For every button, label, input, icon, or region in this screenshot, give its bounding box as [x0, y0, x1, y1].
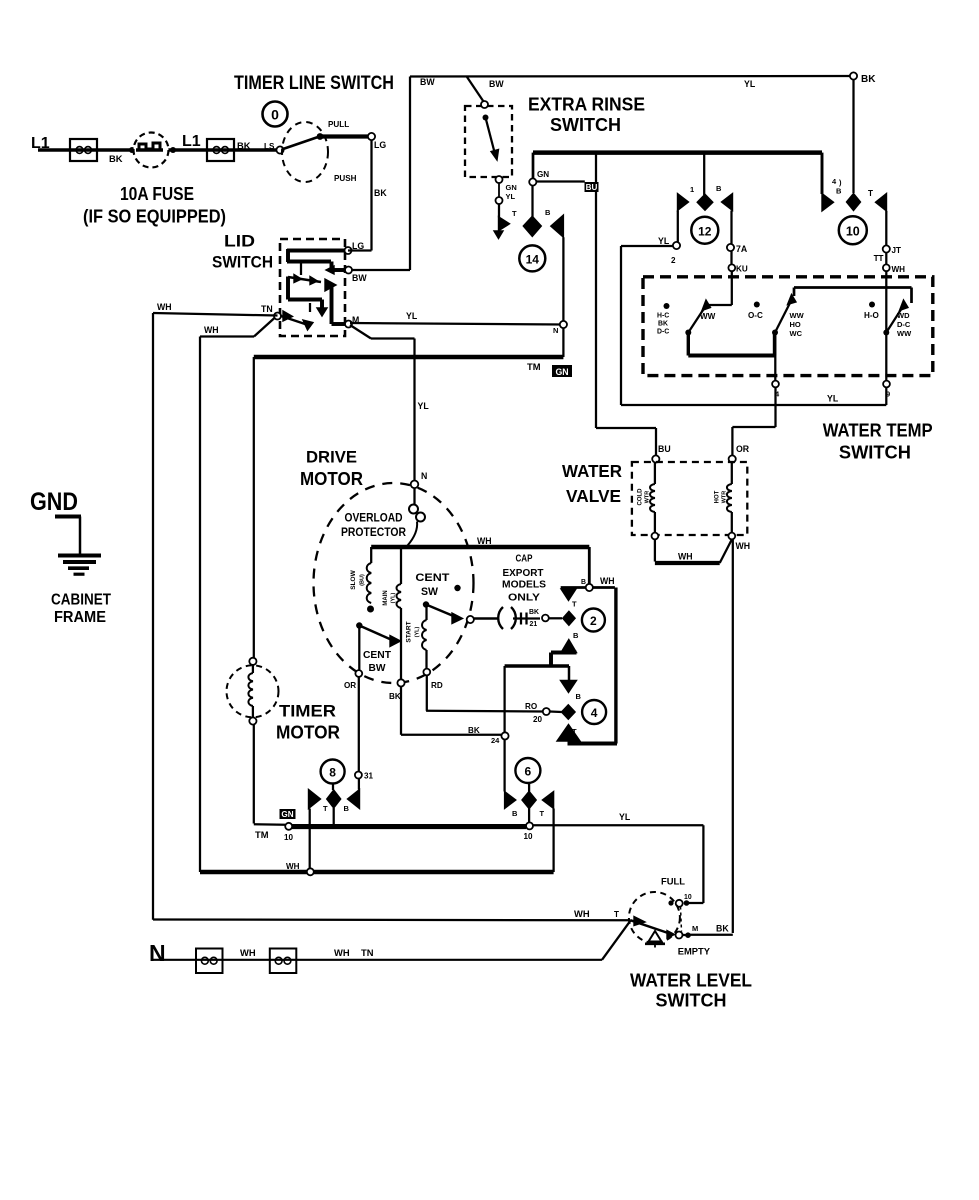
- svg-text:MOTOR: MOTOR: [276, 723, 340, 743]
- svg-text:BK: BK: [716, 924, 729, 934]
- svg-text:BW: BW: [489, 79, 504, 89]
- svg-text:WH: WH: [736, 541, 751, 551]
- svg-text:B: B: [512, 809, 518, 818]
- svg-text:EXTRA RINSE: EXTRA RINSE: [528, 95, 645, 115]
- svg-text:WH: WH: [157, 302, 172, 312]
- svg-text:WTR: WTR: [722, 491, 728, 504]
- svg-text:START: START: [406, 621, 413, 642]
- svg-text:OR: OR: [344, 681, 356, 690]
- svg-text:ONLY: ONLY: [508, 593, 540, 604]
- svg-text:L1: L1: [182, 133, 201, 150]
- svg-text:OR: OR: [736, 444, 750, 454]
- svg-text:10: 10: [523, 832, 533, 841]
- svg-text:WW: WW: [897, 329, 912, 338]
- svg-text:WH: WH: [240, 948, 256, 958]
- svg-text:T: T: [540, 809, 545, 818]
- svg-text:B: B: [344, 804, 350, 813]
- svg-text:TT: TT: [874, 254, 884, 263]
- svg-text:BW: BW: [420, 77, 435, 87]
- svg-text:VALVE: VALVE: [566, 486, 621, 506]
- svg-text:WC: WC: [790, 329, 803, 338]
- svg-text:GND: GND: [30, 488, 78, 516]
- svg-text:HO: HO: [790, 320, 801, 329]
- svg-text:WH: WH: [286, 862, 300, 871]
- svg-text:DRIVE: DRIVE: [306, 448, 357, 467]
- svg-text:YL: YL: [658, 236, 670, 246]
- svg-text:1: 1: [690, 185, 694, 194]
- svg-text:TN: TN: [361, 948, 374, 958]
- svg-text:CENT: CENT: [363, 649, 392, 661]
- svg-text:(YL): (YL): [415, 626, 421, 637]
- svg-text:BK: BK: [109, 154, 123, 164]
- svg-text:WW: WW: [790, 311, 805, 320]
- svg-text:SLOW: SLOW: [350, 569, 357, 589]
- svg-text:24: 24: [491, 736, 500, 745]
- svg-text:WTR: WTR: [645, 491, 651, 504]
- svg-text:WD: WD: [897, 311, 910, 320]
- svg-text:TIMER LINE SWITCH: TIMER LINE SWITCH: [234, 73, 394, 94]
- svg-text:B: B: [545, 208, 551, 217]
- svg-text:T: T: [572, 727, 577, 736]
- svg-text:SWITCH: SWITCH: [656, 991, 727, 1011]
- svg-text:WH: WH: [477, 536, 492, 546]
- svg-text:MAIN: MAIN: [383, 590, 389, 605]
- svg-text:GN: GN: [537, 170, 549, 179]
- svg-text:T: T: [323, 804, 328, 813]
- svg-text:EMPTY: EMPTY: [678, 947, 711, 957]
- svg-text:RO: RO: [525, 702, 537, 711]
- svg-text:YL: YL: [827, 394, 839, 404]
- svg-text:N: N: [149, 940, 166, 966]
- svg-text:31: 31: [364, 772, 374, 781]
- svg-text:GN: GN: [555, 367, 568, 377]
- svg-text:YL: YL: [506, 192, 516, 201]
- svg-text:10A FUSE: 10A FUSE: [120, 184, 194, 204]
- svg-text:KU: KU: [736, 265, 748, 274]
- svg-text:GN: GN: [506, 183, 517, 192]
- svg-text:O-C: O-C: [748, 311, 763, 320]
- svg-text:10: 10: [284, 833, 294, 842]
- svg-text:BK: BK: [237, 141, 251, 151]
- svg-text:YL: YL: [744, 79, 756, 89]
- svg-text:LS: LS: [264, 142, 275, 151]
- svg-text:WATER LEVEL: WATER LEVEL: [630, 971, 752, 991]
- svg-text:21: 21: [530, 621, 538, 628]
- svg-text:TIMER: TIMER: [279, 702, 336, 721]
- svg-text:2: 2: [671, 256, 676, 265]
- svg-text:SWITCH: SWITCH: [212, 253, 273, 272]
- svg-text:B: B: [836, 187, 842, 196]
- svg-text:(IF SO EQUIPPED): (IF SO EQUIPPED): [83, 207, 226, 227]
- svg-text:WH: WH: [892, 265, 906, 274]
- svg-text:WH: WH: [204, 325, 219, 335]
- svg-text:FULL: FULL: [661, 877, 685, 887]
- svg-text:N: N: [421, 471, 427, 481]
- svg-text:B: B: [581, 579, 586, 586]
- svg-text:WH: WH: [600, 576, 615, 586]
- svg-text:T: T: [512, 209, 517, 218]
- svg-text:HOT: HOT: [715, 490, 721, 503]
- svg-text:WATER TEMP: WATER TEMP: [823, 421, 933, 441]
- svg-text:H-O: H-O: [864, 311, 879, 320]
- svg-text:WH: WH: [678, 552, 693, 562]
- svg-text:BW: BW: [369, 662, 386, 674]
- svg-text:7A: 7A: [736, 244, 748, 254]
- svg-text:10: 10: [846, 225, 860, 239]
- svg-text:6: 6: [525, 765, 532, 779]
- svg-text:YL: YL: [406, 311, 418, 321]
- svg-text:WH: WH: [334, 948, 350, 958]
- svg-text:12: 12: [698, 225, 712, 239]
- svg-text:N: N: [553, 326, 558, 335]
- svg-text:B: B: [573, 631, 579, 640]
- svg-text:(YL): (YL): [391, 592, 397, 603]
- svg-text:4: 4: [591, 706, 598, 720]
- svg-text:BK: BK: [389, 692, 401, 701]
- svg-text:BU: BU: [658, 444, 671, 454]
- svg-text:YL: YL: [619, 812, 631, 822]
- svg-text:BK: BK: [861, 74, 876, 85]
- svg-text:JT: JT: [892, 246, 902, 255]
- svg-text:WATER: WATER: [562, 461, 622, 481]
- svg-text:PUSH: PUSH: [334, 174, 357, 183]
- svg-text:MOTOR: MOTOR: [300, 469, 363, 489]
- svg-text:WH: WH: [574, 909, 590, 919]
- svg-text:8: 8: [329, 766, 336, 780]
- svg-text:MODELS: MODELS: [502, 580, 546, 591]
- svg-text:H-C: H-C: [657, 313, 669, 320]
- svg-text:RD: RD: [431, 681, 443, 690]
- svg-text:10: 10: [684, 894, 692, 901]
- svg-text:EXPORT: EXPORT: [503, 568, 544, 579]
- svg-text:CENT: CENT: [415, 572, 449, 584]
- svg-text:BK: BK: [529, 609, 539, 616]
- svg-text:CABINET: CABINET: [51, 592, 111, 609]
- svg-text:SWITCH: SWITCH: [839, 443, 911, 463]
- svg-text:T: T: [572, 600, 577, 609]
- svg-text:M: M: [692, 924, 698, 933]
- svg-text:OVERLOAD: OVERLOAD: [345, 513, 403, 525]
- svg-text:(BU): (BU): [360, 574, 366, 586]
- svg-text:BU: BU: [586, 183, 598, 192]
- svg-text:T: T: [614, 910, 619, 919]
- svg-text:FRAME: FRAME: [54, 609, 106, 626]
- svg-text:PULL: PULL: [328, 120, 349, 129]
- svg-text:TM: TM: [255, 830, 269, 840]
- svg-text:COLD: COLD: [638, 488, 644, 506]
- svg-text:WW: WW: [700, 312, 716, 321]
- svg-text:SWITCH: SWITCH: [550, 115, 621, 135]
- svg-text:LID: LID: [224, 232, 255, 251]
- svg-text:TN: TN: [261, 304, 273, 314]
- svg-text:14: 14: [526, 253, 540, 267]
- svg-text:YL: YL: [418, 401, 430, 411]
- svg-text:0: 0: [271, 107, 279, 123]
- svg-text:BW: BW: [352, 273, 367, 283]
- svg-text:D-C: D-C: [657, 329, 669, 336]
- svg-text:20: 20: [533, 715, 543, 724]
- svg-text:BK: BK: [658, 321, 668, 328]
- svg-text:CAP: CAP: [516, 554, 533, 565]
- svg-text:TM: TM: [527, 362, 541, 372]
- svg-text:D-C: D-C: [897, 320, 911, 329]
- svg-text:2: 2: [590, 614, 597, 628]
- svg-text:PROTECTOR: PROTECTOR: [341, 527, 407, 539]
- svg-text:GN: GN: [281, 810, 293, 819]
- svg-text:LG: LG: [374, 140, 386, 150]
- svg-text:BK: BK: [374, 188, 387, 198]
- svg-text:SW: SW: [421, 586, 439, 598]
- svg-text:BK: BK: [468, 726, 480, 735]
- svg-text:B: B: [716, 184, 722, 193]
- svg-text:B: B: [576, 692, 582, 701]
- svg-text:T: T: [868, 189, 873, 198]
